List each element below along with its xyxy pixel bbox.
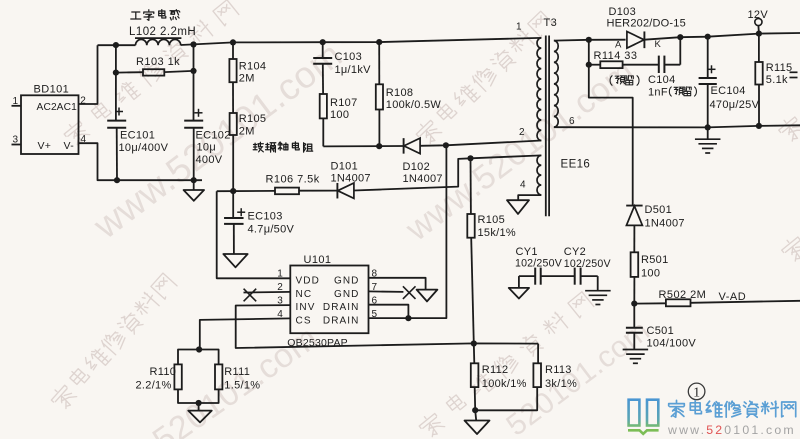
svg-text:V-AD: V-AD xyxy=(719,291,747,303)
svg-text:1N4007: 1N4007 xyxy=(403,173,443,185)
capacitor C103 xyxy=(313,39,371,94)
wire D501 feed xyxy=(589,40,633,206)
svg-text:C501: C501 xyxy=(647,325,675,337)
wire pin6 DRAIN xyxy=(369,305,409,319)
wire pin8 GND xyxy=(369,278,426,290)
svg-text:HER202/DO-15: HER202/DO-15 xyxy=(607,17,686,29)
svg-text:R112: R112 xyxy=(482,364,509,376)
ground CY1 xyxy=(509,276,529,298)
wire pin2 NC with X xyxy=(244,289,291,302)
svg-text:1: 1 xyxy=(516,22,522,33)
resistor R110 xyxy=(136,350,200,404)
resistor R108 xyxy=(376,39,442,146)
svg-text:R103 1k: R103 1k xyxy=(136,56,180,68)
resistor R106 xyxy=(266,173,338,194)
resistor R112 xyxy=(471,344,527,411)
svg-text:DRAIN: DRAIN xyxy=(323,315,360,326)
ground secondary earth xyxy=(695,127,721,153)
svg-text:R111: R111 xyxy=(224,366,250,378)
svg-text:15k/1%: 15k/1% xyxy=(478,227,517,239)
svg-text:1: 1 xyxy=(13,96,19,107)
wire snubber rail xyxy=(323,145,403,147)
svg-text:4: 4 xyxy=(81,134,87,145)
svg-text:R110: R110 xyxy=(150,366,177,378)
svg-text:L102 2.2mH: L102 2.2mH xyxy=(129,26,196,38)
svg-text:R105: R105 xyxy=(239,113,266,125)
resistor R105 15k xyxy=(467,158,516,343)
svg-text:INV: INV xyxy=(296,302,316,313)
resistor R114 xyxy=(589,50,659,86)
svg-text:U101: U101 xyxy=(304,254,332,266)
resistor R502 xyxy=(634,289,800,307)
node drain pins xyxy=(405,315,411,321)
ground feedback divider xyxy=(465,410,490,434)
wire BD101 pin 2 to HV rail xyxy=(79,45,98,106)
capacitor EC101 xyxy=(107,45,168,180)
svg-text:C104: C104 xyxy=(648,74,676,86)
svg-text:2M: 2M xyxy=(239,125,255,137)
wire pin5 DRAIN to transformer xyxy=(369,145,447,318)
svg-text:R113: R113 xyxy=(545,364,572,376)
svg-text:EC104: EC104 xyxy=(711,85,746,97)
logo book icon xyxy=(628,400,659,434)
svg-text:R114 33: R114 33 xyxy=(594,50,638,62)
svg-text:AC2: AC2 xyxy=(37,102,58,113)
node R108 bottom xyxy=(376,143,382,149)
resistor R111 xyxy=(199,350,261,404)
svg-text:R105: R105 xyxy=(478,214,506,226)
capacitor C104 xyxy=(648,37,696,98)
svg-text:DRAIN: DRAIN xyxy=(323,302,360,313)
svg-text:470μ/25V: 470μ/25V xyxy=(710,99,760,111)
wire BD101 pin 4 to ground rail xyxy=(79,134,203,180)
op-amp U101 OB2530PAP xyxy=(277,254,377,349)
wire HV top rail xyxy=(98,44,136,46)
svg-text:2: 2 xyxy=(80,95,86,106)
node R115 bottom xyxy=(756,123,762,129)
node ground rail EC102 xyxy=(191,177,197,183)
ground EC103 xyxy=(223,254,247,267)
svg-text:400V: 400V xyxy=(196,154,223,166)
svg-text:10μ/400V: 10μ/400V xyxy=(119,142,169,154)
node ground rail EC101 xyxy=(114,177,120,183)
svg-text:K: K xyxy=(655,39,662,50)
svg-text:R115: R115 xyxy=(766,62,793,74)
node EC104 top xyxy=(705,34,711,40)
svg-text:5.1k: 5.1k xyxy=(766,74,788,86)
svg-text:3k/1%: 3k/1% xyxy=(545,378,577,390)
svg-text:1N4007: 1N4007 xyxy=(331,172,371,184)
svg-text:AC1: AC1 xyxy=(57,102,78,113)
svg-text:2M: 2M xyxy=(239,72,255,84)
svg-text:D102: D102 xyxy=(403,161,431,173)
svg-text:CY1: CY1 xyxy=(516,246,538,258)
node HV-EC102 xyxy=(190,41,196,47)
ground U101 xyxy=(417,290,438,302)
resistor R105 2M xyxy=(230,82,267,191)
wire aux winding bottom to ground xyxy=(518,195,541,200)
svg-text:BD101: BD101 xyxy=(34,84,70,96)
svg-text:C103: C103 xyxy=(335,51,363,63)
node R114 left xyxy=(586,62,592,68)
diode D103 xyxy=(607,6,686,51)
ground CY2 earth xyxy=(585,276,611,304)
svg-text:100k/0.5W: 100k/0.5W xyxy=(386,99,442,111)
capacitor EC102 xyxy=(184,45,230,181)
diode D102 xyxy=(403,138,443,185)
node drain branch xyxy=(443,142,449,148)
terminal 12V xyxy=(748,9,769,34)
capacitor EC103 xyxy=(224,191,294,254)
logo url xyxy=(667,423,796,437)
svg-text:V-: V- xyxy=(63,140,74,152)
svg-text:EC102: EC102 xyxy=(196,129,231,141)
svg-text:R104: R104 xyxy=(239,60,266,72)
transformer T3 aux winding xyxy=(520,155,541,195)
svg-text:100: 100 xyxy=(330,109,349,121)
node VDD-EC103 xyxy=(230,188,236,194)
diode D101 xyxy=(331,160,371,198)
svg-text:R502 2M: R502 2M xyxy=(659,289,707,301)
svg-text:1.5/1%: 1.5/1% xyxy=(224,380,260,392)
svg-text:www.520101.com: www.520101.com xyxy=(667,423,796,437)
wire HV rail to transformer pin 1 xyxy=(181,38,542,45)
wire VDD rail xyxy=(217,190,275,192)
wire secondary top rail xyxy=(554,39,626,42)
transformer T3 primary winding xyxy=(516,17,557,141)
svg-text:CY2: CY2 xyxy=(564,246,586,258)
svg-text:2: 2 xyxy=(519,127,525,138)
svg-text:4: 4 xyxy=(520,180,526,191)
resistor R115 xyxy=(755,34,797,126)
resistor R107 xyxy=(320,94,358,146)
svg-text:T3: T3 xyxy=(544,17,558,29)
svg-text:R501: R501 xyxy=(641,254,669,266)
wire pin3 INV to feedback divider xyxy=(236,305,538,348)
svg-text:1N4007: 1N4007 xyxy=(645,217,685,229)
ground C501 earth xyxy=(623,349,649,351)
svg-text:EE16: EE16 xyxy=(561,159,591,171)
svg-text:4.7μ/50V: 4.7μ/50V xyxy=(248,224,295,236)
ground primary bulk xyxy=(184,180,205,201)
wire aux winding top xyxy=(471,155,542,158)
svg-text:102/250V: 102/250V xyxy=(564,258,612,270)
capacitor EC104 xyxy=(699,37,760,128)
capacitor CY1 xyxy=(515,246,563,285)
svg-text:102/250V: 102/250V xyxy=(515,257,563,269)
svg-text:1nF: 1nF xyxy=(648,86,668,98)
svg-text:1: 1 xyxy=(693,385,700,400)
node aux-R105 xyxy=(467,155,473,161)
node R103 left xyxy=(113,70,119,76)
node feedback top xyxy=(471,340,477,346)
svg-text:10μ: 10μ xyxy=(197,142,216,154)
svg-text:EC101: EC101 xyxy=(120,129,155,141)
capacitor C501 xyxy=(626,304,696,350)
transformer T3 secondary winding xyxy=(554,41,575,128)
wire pin4 CS to sense resistors xyxy=(200,318,290,349)
svg-text:2.2/1%: 2.2/1% xyxy=(136,380,172,392)
wire pin7 GND with X xyxy=(369,286,416,299)
svg-text:VDD: VDD xyxy=(296,275,320,286)
wire CY1-CY2 xyxy=(541,275,575,277)
resistor R103 xyxy=(116,56,194,76)
svg-text:6: 6 xyxy=(569,116,575,127)
svg-text:R107: R107 xyxy=(330,97,358,109)
node R112 bottom xyxy=(472,407,478,413)
resistor R501 xyxy=(631,252,669,303)
transformer T3 core xyxy=(546,36,549,217)
BD101 pin 1 stub xyxy=(12,96,22,107)
node CS bottom xyxy=(196,400,202,406)
node R103 right xyxy=(190,68,196,74)
ground aux winding xyxy=(507,200,529,214)
resistor R104 xyxy=(229,39,266,84)
svg-text:NC: NC xyxy=(296,289,313,300)
wire D101 to aux winding xyxy=(354,158,471,190)
svg-text:100: 100 xyxy=(641,267,660,279)
node CS top xyxy=(196,346,202,352)
wire secondary ground rail xyxy=(554,125,800,127)
svg-text:D101: D101 xyxy=(331,160,359,172)
svg-text:EC103: EC103 xyxy=(248,210,283,222)
svg-text:D501: D501 xyxy=(645,204,673,216)
node D501 branch xyxy=(586,37,592,43)
capacitor CY2 xyxy=(564,246,612,285)
svg-text:CS: CS xyxy=(296,315,312,326)
diode D501 xyxy=(626,204,685,253)
svg-text:GND: GND xyxy=(334,275,360,286)
wire D103 cathode to output xyxy=(644,33,800,40)
wire pin1 VDD xyxy=(217,191,291,278)
svg-text:R106 7.5k: R106 7.5k xyxy=(266,173,320,185)
node 12V xyxy=(756,30,762,36)
bridge rectifier BD101 xyxy=(21,84,79,155)
wire D102 to transformer pin 2 xyxy=(420,141,541,146)
node HV-EC101 xyxy=(113,42,119,48)
logo site name xyxy=(669,400,796,417)
BD101 pin 3 stub xyxy=(12,135,22,146)
svg-text:R108: R108 xyxy=(386,87,414,99)
resistor R113 xyxy=(475,344,577,411)
svg-text:1μ/1kV: 1μ/1kV xyxy=(335,64,372,76)
node V-AD xyxy=(631,301,637,307)
svg-text:GND: GND xyxy=(334,289,360,300)
svg-text:V+: V+ xyxy=(38,140,52,152)
label glass glaze resistor xyxy=(253,142,263,152)
logo circled 1 xyxy=(688,383,705,400)
svg-text:D103: D103 xyxy=(609,6,637,18)
node C104 top xyxy=(677,34,683,40)
svg-text:3: 3 xyxy=(13,135,19,146)
svg-text:104/100V: 104/100V xyxy=(647,338,697,350)
inductor L102 xyxy=(129,10,196,46)
ground sense resistors xyxy=(188,403,212,422)
node EC104 bottom xyxy=(705,124,711,130)
svg-text:100k/1%: 100k/1% xyxy=(482,378,527,390)
